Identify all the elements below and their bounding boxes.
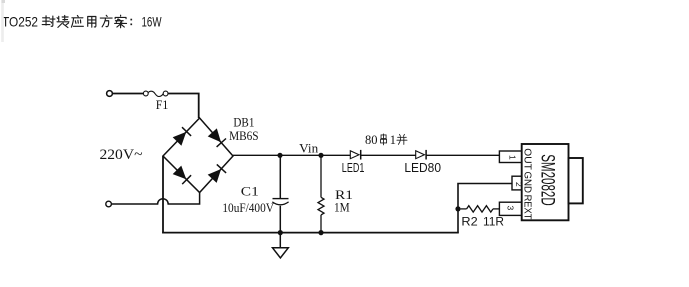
ground	[273, 233, 289, 258]
junction node bottom rail at C1	[278, 230, 283, 235]
svg-text:16W: 16W	[142, 14, 163, 30]
svg-text:80: 80	[365, 133, 378, 147]
wire: bottom rail	[162, 232, 459, 234]
svg-text:220V~: 220V~	[100, 147, 143, 163]
terminal L1 (top input)	[107, 91, 113, 97]
svg-text:MB6S: MB6S	[229, 128, 259, 143]
svg-text:GND: GND	[522, 172, 534, 194]
svg-text:LED1: LED1	[342, 160, 365, 175]
title text "TO252 封装应用方案：16W"	[2, 14, 162, 30]
svg-text:REXT: REXT	[522, 195, 534, 220]
svg-text:1: 1	[390, 133, 396, 147]
svg-text:SM2082D: SM2082D	[537, 154, 558, 206]
svg-text:1M: 1M	[334, 200, 350, 215]
bridge diode top-left	[174, 127, 192, 145]
wire: bridge left vertex down (negative rail)	[162, 156, 164, 233]
IC tab	[569, 158, 583, 203]
svg-text:C1: C1	[241, 183, 259, 198]
svg-text:Vin: Vin	[299, 140, 318, 155]
resistor R2	[461, 206, 500, 212]
IC body	[522, 144, 569, 220]
wire: GND pin2 to left and down to bottom rail	[458, 184, 513, 233]
pin 1 box	[499, 151, 521, 163]
pin 3 box	[499, 202, 521, 215]
svg-text:LED80: LED80	[404, 160, 441, 175]
pin 2 box	[512, 176, 522, 190]
bridge rectifier DB1 diamond	[163, 118, 233, 193]
svg-text:R2: R2	[461, 216, 477, 228]
svg-text:F1: F1	[156, 98, 169, 112]
LED80 diode	[416, 150, 426, 160]
label R2 11R	[461, 216, 504, 228]
LED1 diode	[350, 150, 360, 160]
junction node on Vin rail at R1	[318, 153, 323, 158]
terminal L2 (bottom input)	[106, 201, 112, 207]
op-amp/IC U1 SM2082D package	[499, 144, 582, 220]
svg-text:TO252: TO252	[2, 14, 38, 30]
svg-text:10uF/400V: 10uF/400V	[222, 200, 274, 215]
junction node R2 tap	[455, 206, 460, 211]
label 80串1并	[365, 133, 407, 147]
wire: fuse to bridge top corner	[168, 94, 199, 119]
bridge diode top-right	[209, 129, 227, 147]
svg-text:11R: 11R	[483, 216, 504, 228]
wire: bottom terminal with hop over ground line, to bridge bottom	[111, 193, 199, 205]
fuse F1	[143, 91, 168, 96]
wire: Vin rail from bridge right vertex to IC pin1	[233, 154, 350, 156]
svg-text:3: 3	[506, 206, 516, 211]
resistor R1	[318, 155, 324, 232]
svg-text:1: 1	[508, 155, 518, 160]
bridge diode bottom-left	[174, 166, 192, 184]
junction node bottom rail at R1	[318, 230, 323, 235]
wire: top terminal to fuse	[112, 93, 143, 95]
capacitor C1	[272, 155, 288, 232]
bridge diode bottom-right	[209, 164, 227, 182]
faint page-edge smudge top-left	[1, 0, 4, 42]
junction node on Vin rail at C1	[277, 153, 282, 158]
svg-text:OUT: OUT	[522, 148, 534, 170]
